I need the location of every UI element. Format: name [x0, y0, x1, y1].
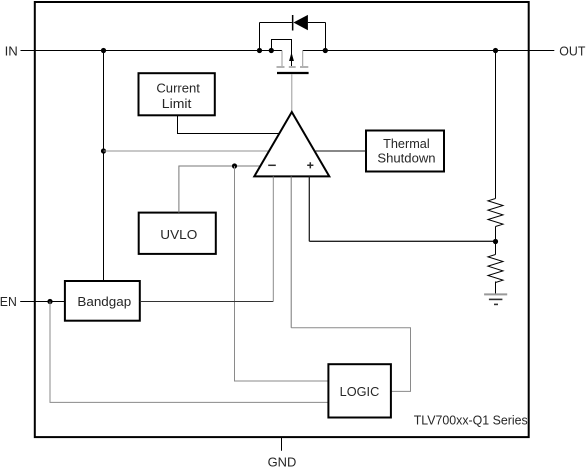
op-amp U1 error amplifier	[254, 112, 329, 176]
node junction dot diode-right	[323, 48, 328, 53]
svg-text:UVLO: UVLO	[160, 227, 197, 242]
wire body-diode loop top left	[260, 22, 292, 24]
block Current Limit	[139, 73, 215, 115]
wire Bandgap output to amp inverting drop	[140, 301, 273, 303]
svg-text:EN: EN	[0, 294, 17, 309]
node junction dot diode-left	[257, 48, 262, 53]
svg-text:Shutdown: Shutdown	[377, 151, 435, 166]
wire UVLO riser to inverting input line	[179, 166, 261, 213]
svg-text:Limit: Limit	[162, 96, 192, 111]
block Thermal Shutdown	[366, 131, 444, 172]
wire gate to error amp output	[291, 74, 293, 111]
wire body-diode loop right riser	[325, 23, 327, 51]
wire body-diode loop left riser	[259, 23, 261, 51]
wire amp inverting drop (reference input)	[272, 176, 274, 301]
svg-text:OUT: OUT	[559, 44, 585, 59]
node junction dot VIN branch / amp supply	[101, 148, 106, 153]
block LOGIC	[328, 364, 391, 417]
diode D1 body (anode triangle pointing left)	[293, 15, 308, 30]
wire LOGIC loop horizontal + right riser	[291, 328, 410, 392]
wire EN down to LOGIC	[50, 302, 328, 403]
transistor Q1 bulk contact bar	[289, 66, 296, 68]
wire VIN branch down to Bandgap	[103, 51, 105, 282]
wire resistor to ground	[495, 282, 497, 294]
transistor Q1 pass PMOS : source leg	[281, 51, 283, 67]
svg-text:Current: Current	[156, 81, 200, 96]
wire from inverting-line node down to LOGIC	[235, 166, 329, 381]
node junction dot bulk tap	[269, 48, 274, 53]
wire OUT rail (right segment to OUT pin)	[303, 50, 555, 52]
transistor Q1 bulk arrow	[289, 52, 294, 61]
transistor Q1 bulk over-route wire	[272, 40, 292, 67]
svg-text:LOGIC: LOGIC	[340, 385, 380, 399]
IC boundary box	[35, 2, 529, 437]
wire amp non-inverting drop (feedback input)	[308, 176, 310, 241]
ground symbol (divider ground)	[484, 293, 507, 295]
node junction dot on EN line	[47, 299, 52, 304]
node junction dot on rail at x=103.5	[101, 48, 106, 53]
svg-text:Thermal: Thermal	[383, 136, 430, 151]
op-amp U1 minus sign	[268, 164, 276, 166]
op-amp U1 plus sign	[307, 162, 313, 168]
transistor Q1 source contact bar	[277, 66, 285, 68]
node junction dot feedback divider	[493, 239, 498, 244]
block UVLO	[139, 213, 216, 254]
wire feedback from divider node to amp	[309, 240, 495, 242]
wire OUT rail down to divider	[495, 51, 497, 199]
svg-text:Bandgap: Bandgap	[77, 294, 131, 309]
diode D1 cathode bar	[292, 15, 294, 31]
resistor R2 lower feedback resistor	[488, 255, 503, 283]
transistor Q1 drain leg	[302, 51, 304, 67]
wire EN pin to Bandgap	[20, 301, 65, 303]
wire between resistors	[495, 227, 497, 255]
wire error amp to Thermal Shutdown	[314, 150, 366, 152]
wire Current Limit output to error amp	[178, 115, 280, 133]
resistor R1 upper feedback resistor	[488, 199, 503, 227]
node junction dot divider tap on OUT rail	[493, 48, 498, 53]
wire amp supply (gray) to error amp left edge	[104, 150, 270, 152]
transistor Q1 gate plate	[277, 72, 309, 74]
node junction dot on inverting line	[232, 163, 237, 168]
svg-text:GND: GND	[268, 454, 297, 468]
pin stub GND	[281, 437, 283, 451]
wire amp center drop to LOGIC loop	[290, 176, 292, 327]
svg-text:TLV700xx-Q1 Series: TLV700xx-Q1 Series	[414, 413, 528, 428]
block Bandgap	[65, 281, 140, 321]
transistor Q1 drain contact bar	[300, 66, 308, 68]
svg-text:IN: IN	[5, 44, 18, 59]
wire body-diode loop top right	[308, 22, 326, 24]
wire IN rail (left segment of VIN rail)	[21, 50, 283, 52]
